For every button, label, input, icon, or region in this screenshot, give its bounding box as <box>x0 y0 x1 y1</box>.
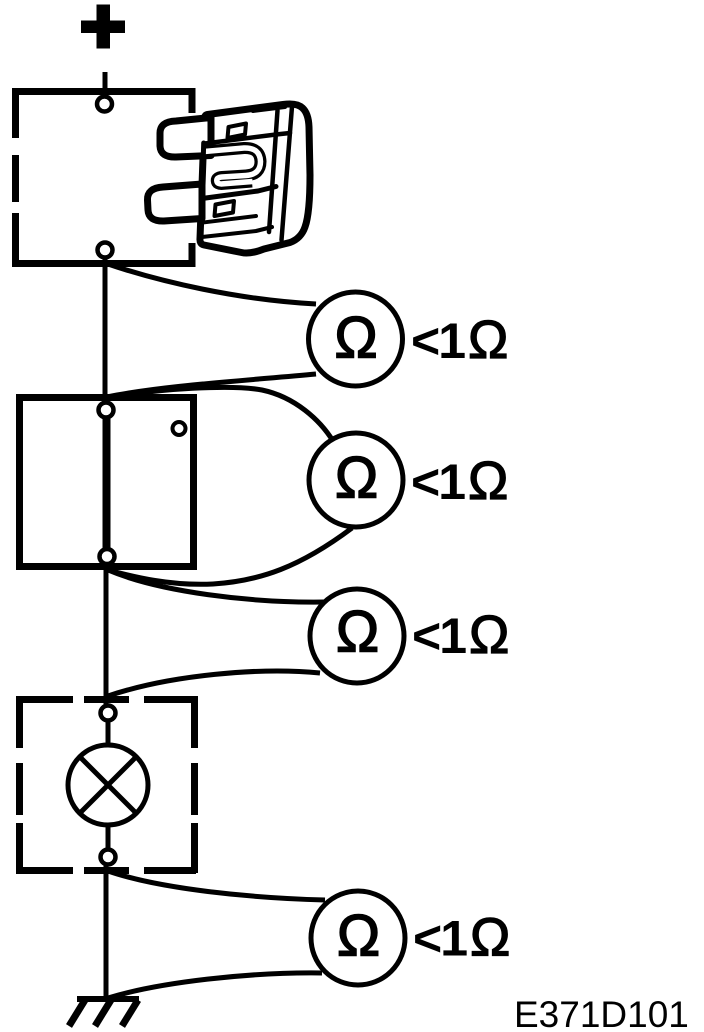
fuse vent hole bottom <box>215 201 235 216</box>
lamp top terminal <box>101 706 116 721</box>
lamp cross line 2 <box>80 757 136 813</box>
ground symbol <box>69 999 139 1026</box>
blade fuse illustration <box>147 104 310 253</box>
switch aux terminal <box>173 422 186 435</box>
svg-text:Ω: Ω <box>468 310 508 370</box>
svg-text:<1: <1 <box>411 313 465 369</box>
lamp cross line 1 <box>80 757 136 813</box>
svg-text:<1: <1 <box>412 608 466 664</box>
ohmmeter 1 <box>309 292 403 386</box>
svg-text:Ω: Ω <box>470 908 510 968</box>
ohmmeter 1 lead to switch top terminal <box>107 374 316 397</box>
lamp bottom terminal <box>101 850 116 865</box>
switch bottom terminal <box>100 549 115 564</box>
fuse lower seam lines <box>202 216 257 223</box>
ohmmeter 4 lead to lamp bottom terminal <box>108 871 325 900</box>
ohmmeter 2 lead to switch top terminal <box>107 387 333 441</box>
fuse body left edge over strip <box>202 143 203 190</box>
fuse box (dashed holder box) <box>12 88 196 267</box>
switch box <box>20 398 194 567</box>
svg-text:Ω: Ω <box>469 605 509 665</box>
fuse cap seam line <box>205 133 290 144</box>
lamp wire top <box>106 720 111 747</box>
fuse top blade <box>160 118 211 158</box>
fuse top edge step line <box>253 107 285 111</box>
ohmmeter 1 lead to fuse bottom terminal <box>105 263 316 304</box>
switch contact bar <box>103 418 111 549</box>
fuse box bottom terminal <box>98 243 113 258</box>
svg-text:Ω: Ω <box>468 451 508 511</box>
ohmmeter 4 lead to ground <box>108 973 322 998</box>
svg-text:<1: <1 <box>413 911 467 967</box>
svg-text:Ω: Ω <box>335 446 378 511</box>
wire lamp box to ground <box>104 864 109 1000</box>
svg-text:<1: <1 <box>411 454 465 510</box>
fuse element S-strip <box>205 148 261 184</box>
fuse mid seam line <box>202 187 276 199</box>
fuse housing silhouette <box>200 104 310 253</box>
wire switch box to lamp box <box>104 563 109 706</box>
wire from plus to fuse box <box>103 72 108 97</box>
battery plus symbol <box>81 5 125 49</box>
ohmmeter 3 lead to lamp top terminal <box>108 671 320 696</box>
lamp bulb <box>68 745 148 825</box>
ohmmeter 3 <box>310 589 404 683</box>
fuse box top terminal <box>97 97 112 112</box>
switch top terminal <box>99 403 114 418</box>
fuse vent hole top <box>228 124 247 139</box>
svg-text:Ω: Ω <box>337 904 380 969</box>
svg-text:E371D101: E371D101 <box>514 994 689 1032</box>
svg-text:Ω: Ω <box>336 600 379 665</box>
ohmmeter 2 <box>309 433 403 527</box>
svg-text:Ω: Ω <box>334 306 377 371</box>
lamp wire bottom <box>106 823 111 851</box>
lamp box (dashed) <box>16 696 198 874</box>
ohmmeter 3 lead to switch bottom terminal <box>108 570 324 602</box>
ohmmeter 2 lead to switch bottom terminal <box>108 528 352 584</box>
wire fuse box bottom terminal to switch top terminal <box>103 257 108 403</box>
ohmmeter 4 <box>311 891 405 985</box>
fuse bottom blade <box>147 184 202 221</box>
fuse housing chamfer edge lines <box>269 111 278 233</box>
